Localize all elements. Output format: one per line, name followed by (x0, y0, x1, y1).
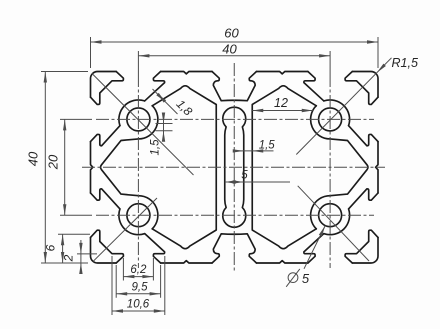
dimension 6 line (62, 234, 64, 263)
dimension 40 top line (138, 55, 330, 57)
diagonal centerline bottom-left cell (93, 198, 157, 261)
diagonal centerline top-left cell (92, 74, 194, 176)
T-slot lip top-right (side edge) (349, 126, 378, 146)
svg-text:40: 40 (26, 151, 41, 166)
T-slot lip top-right (top/bottom edge) (304, 72, 324, 101)
dimension 9,5 line (116, 293, 160, 295)
hole row centerline bottom (96, 214, 374, 216)
dimension 20 line (64, 119, 66, 215)
corner block top-left (91, 72, 124, 105)
corner block top-right (345, 72, 378, 105)
T-slot lip bottom-left (top/bottom edge) (145, 234, 165, 263)
profile outer contour with slot openings (91, 72, 379, 264)
dimension 1,8 line (153, 89, 178, 114)
screw boss wall arcs bottom-right (pocket side) (324, 209, 350, 235)
dimension 20 extensions (60, 119, 92, 215)
leader diam 5 (304, 226, 325, 269)
dimension 60 extension left (90, 37, 92, 68)
diagonal centerline bottom-right cell (298, 186, 369, 261)
svg-text:6: 6 (44, 244, 58, 251)
dimension 60 line (91, 41, 379, 43)
dimension 10,6 extensions (112, 256, 165, 315)
diameter symbol circle (288, 273, 298, 283)
dimension 2 extension (77, 253, 97, 255)
diameter symbol slash (286, 269, 300, 287)
screw boss wall arcs top-left (pocket side) (119, 100, 145, 126)
svg-text:20: 20 (46, 154, 61, 170)
svg-text:5: 5 (241, 169, 248, 181)
screw hole top-right (diam 5) (319, 108, 342, 131)
dimension 1,5 wall line (163, 116, 165, 139)
svg-text:6,2: 6,2 (130, 264, 147, 276)
T-slot lip top-left (top/bottom edge) (145, 72, 165, 101)
dimension 9,5 extensions (116, 265, 160, 298)
svg-text:5: 5 (302, 271, 310, 286)
hollow chamber right wall with web (252, 86, 316, 249)
hole row centerline top (96, 118, 374, 120)
hole column centerline left (137, 74, 139, 268)
svg-text:12: 12 (274, 96, 288, 110)
corner block bottom-right (345, 230, 378, 263)
vertical centerline (233, 63, 235, 272)
svg-text:10,6: 10,6 (127, 299, 150, 311)
dimension 60 extension right (377, 37, 379, 68)
corner block bottom-left (91, 230, 124, 263)
svg-text:1,5: 1,5 (259, 139, 276, 151)
dimension 6,2 line (123, 276, 153, 278)
T-slot lip bottom-right (top/bottom edge) (304, 234, 324, 263)
T-slot lip bottom-right (side edge) (349, 189, 378, 209)
dimension 2 line (80, 240, 82, 269)
cavity waist tip right (330, 139, 368, 196)
dimension 6 extension (58, 233, 90, 235)
dimension 40 left extensions (41, 72, 88, 264)
dimension arrowheads (91, 40, 102, 43)
dimension 40 left line (44, 72, 46, 264)
screw boss wall arcs top-left (cavity side) (138, 106, 157, 139)
svg-text:1,5: 1,5 (150, 139, 162, 156)
svg-text:9,5: 9,5 (132, 281, 149, 293)
screw boss wall arcs bottom-left (pocket side) (119, 209, 145, 235)
screw hole bottom-right (diam 5) (319, 204, 342, 227)
horizontal centerline (82, 166, 385, 168)
screw hole top-left (diam 5) (127, 108, 150, 131)
svg-text:2: 2 (62, 254, 76, 262)
dimension 1,5 wall extensions (156, 124, 173, 131)
T-slot lip bottom-left (side edge) (91, 189, 120, 209)
T-slot lip top-left (side edge) (91, 126, 120, 146)
svg-text:40: 40 (222, 42, 237, 57)
screw boss wall arcs top-right (cavity side) (311, 106, 330, 139)
screw boss wall arcs bottom-left (cavity side) (138, 196, 157, 229)
hole column centerline right (329, 74, 331, 268)
screw hole bottom-left (diam 5) (127, 204, 150, 227)
svg-text:R1,5: R1,5 (392, 56, 418, 70)
dimension 1,5 web line (234, 150, 274, 152)
hollow chamber left wall with web (152, 86, 216, 249)
cavity waist tip left (101, 139, 139, 196)
diagonal centerline top-right cell and R1,5 leader (296, 58, 391, 155)
screw boss wall arcs bottom-right (cavity side) (311, 196, 330, 229)
svg-text:60: 60 (224, 26, 239, 41)
dimension 10,6 line (112, 310, 165, 312)
central slotted screw channel (223, 107, 246, 227)
dimension 12 line (252, 110, 313, 112)
center T-slot pocket top (212, 72, 256, 101)
screw boss wall arcs top-right (pocket side) (324, 100, 350, 126)
dimension 40 top extensions (138, 51, 330, 74)
dimension 5 line (225, 181, 290, 183)
center T-slot pocket bottom (212, 234, 256, 263)
dimension 6,2 extensions (123, 258, 153, 281)
